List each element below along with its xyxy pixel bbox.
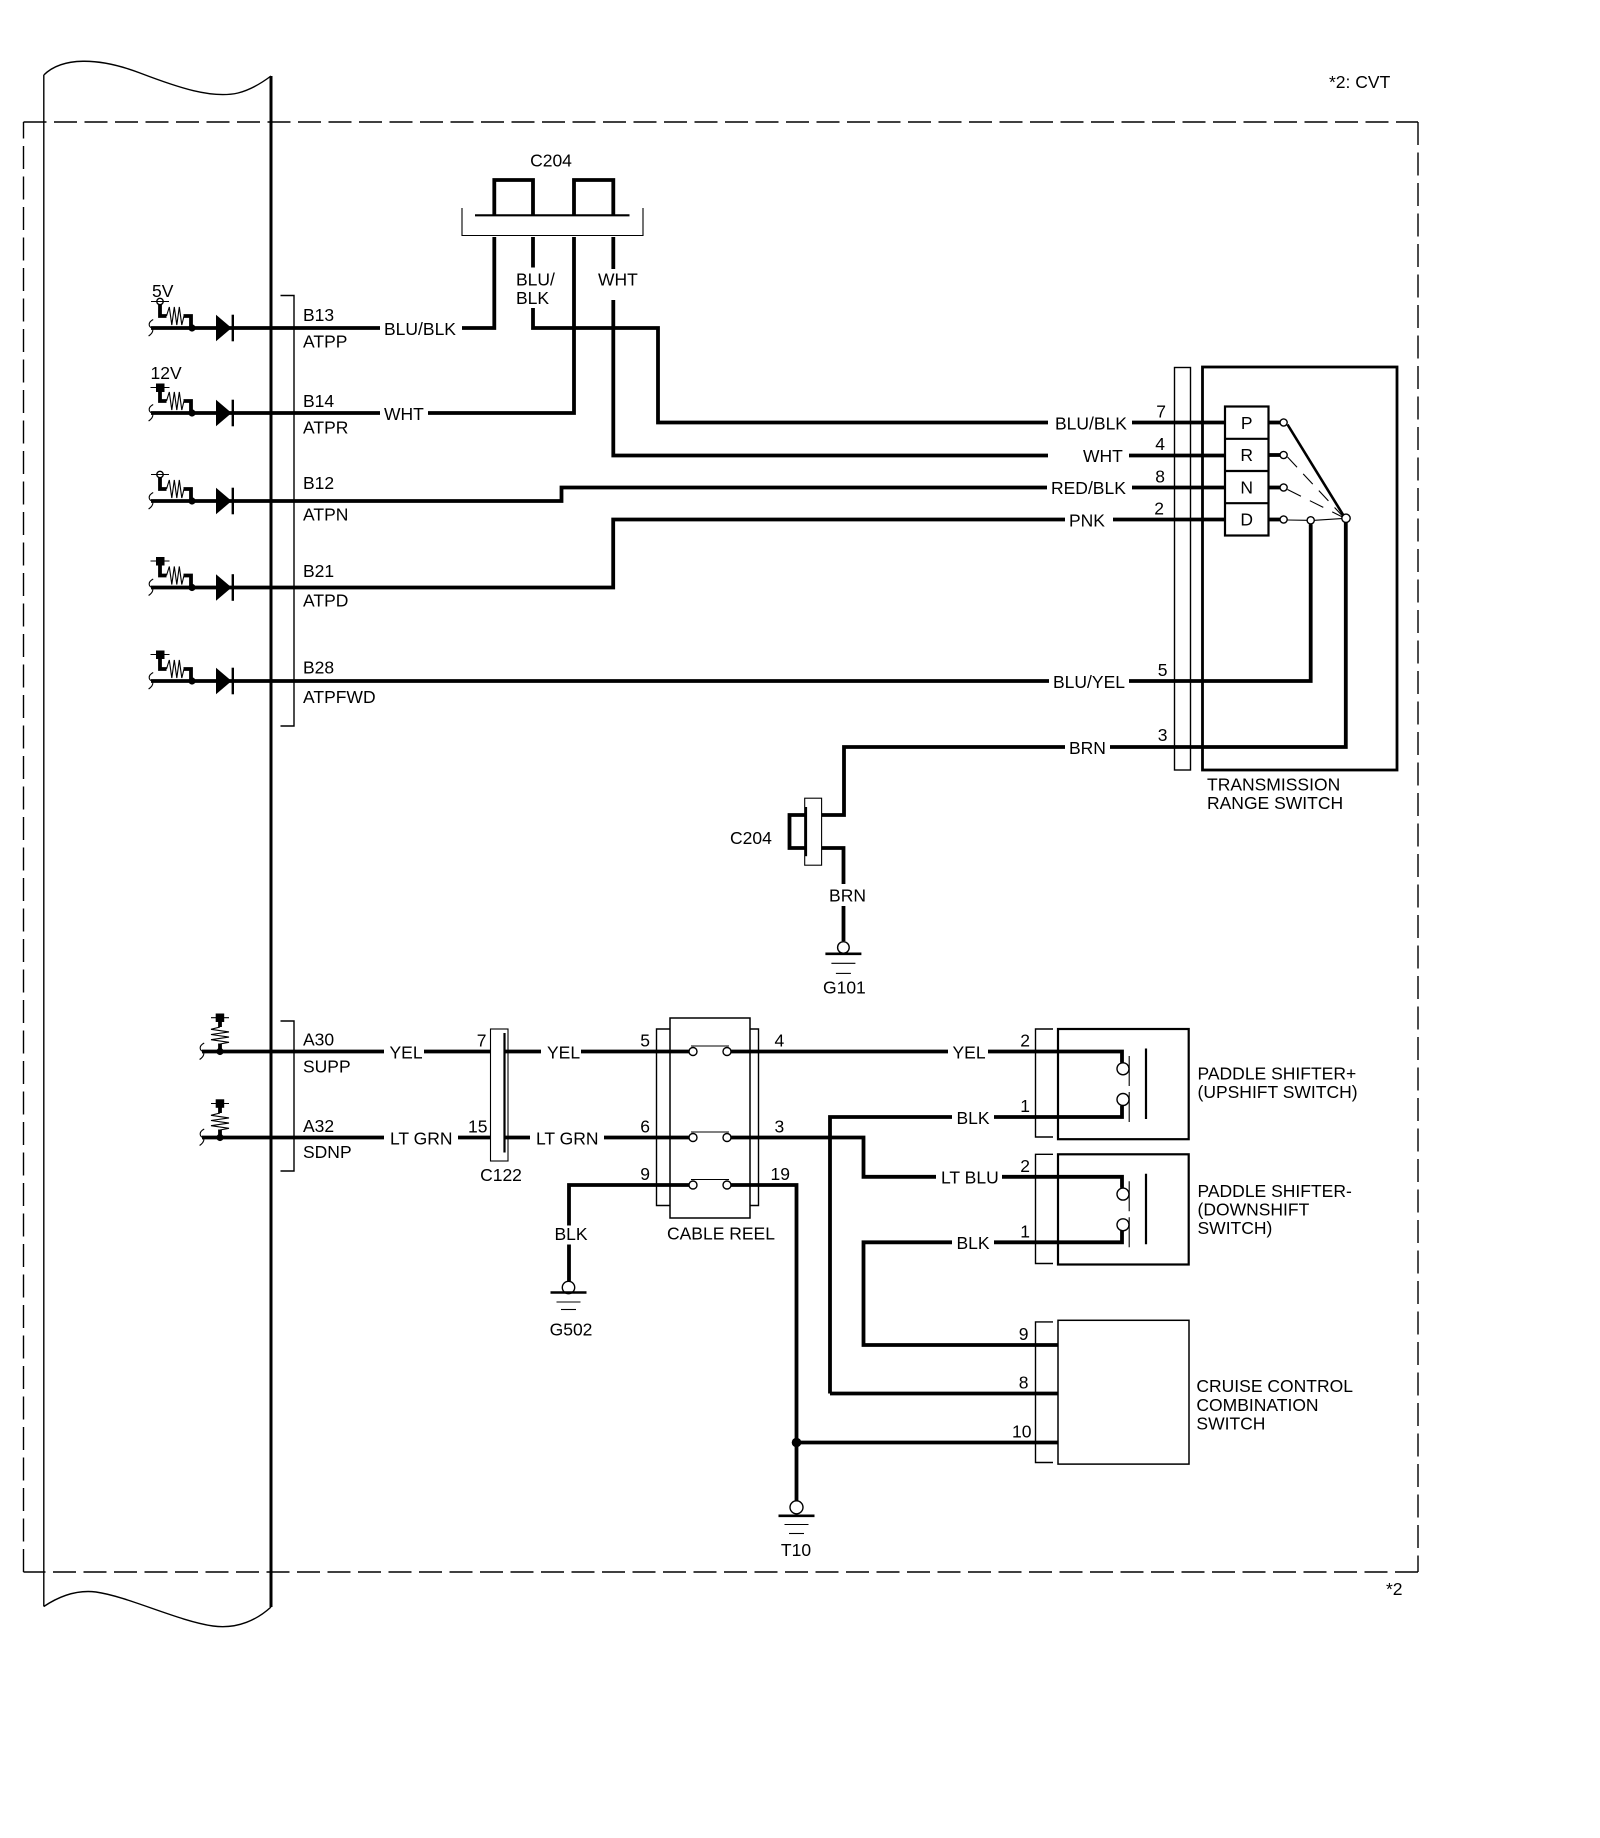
paddle+ connector bracket bbox=[1036, 1029, 1054, 1137]
svg-text:9: 9 bbox=[640, 1164, 650, 1184]
connector C122 contact bar bbox=[503, 1033, 505, 1153]
svg-text:5: 5 bbox=[640, 1031, 650, 1051]
svg-text:1: 1 bbox=[1020, 1221, 1030, 1241]
wire B14 to C204 pin 3 riser bbox=[428, 237, 574, 413]
paddle- actuator dashed line bbox=[1128, 1181, 1130, 1249]
wire break hook B14 bbox=[149, 405, 154, 422]
wire YEL to C122 bbox=[424, 1050, 491, 1054]
paddle+ upper contact bbox=[1117, 1063, 1129, 1075]
svg-text:PADDLE SHIFTER-: PADDLE SHIFTER- bbox=[1198, 1181, 1352, 1201]
wire cable reel pin 3 (LT BLU net) bbox=[731, 1138, 936, 1177]
wire break hook B21 bbox=[149, 579, 154, 596]
svg-text:TRANSMISSION: TRANSMISSION bbox=[1207, 775, 1340, 795]
paddle- button bar bbox=[1145, 1174, 1147, 1245]
cable reel contacts row 1 bbox=[689, 1046, 731, 1056]
wire cable reel pin 19 to T10/cruise pin 10 bbox=[731, 1185, 797, 1501]
paddle- box bbox=[1058, 1154, 1189, 1264]
svg-text:ATPN: ATPN bbox=[303, 504, 348, 524]
5V terminal bbox=[151, 298, 169, 304]
svg-text:12V: 12V bbox=[151, 363, 182, 383]
paddle+ actuator dashed line bbox=[1128, 1056, 1130, 1124]
wire B14 bbox=[151, 411, 380, 415]
svg-text:SWITCH: SWITCH bbox=[1196, 1414, 1265, 1434]
svg-text:BLU/: BLU/ bbox=[516, 270, 555, 290]
terminal (A30) bbox=[211, 1014, 229, 1023]
svg-text:RED/BLK: RED/BLK bbox=[1051, 478, 1126, 498]
svg-text:LT GRN: LT GRN bbox=[390, 1128, 453, 1148]
svg-text:9: 9 bbox=[1019, 1324, 1029, 1344]
wire BRN below connector bbox=[822, 848, 844, 941]
ground G502 bbox=[551, 1281, 587, 1309]
svg-text:G502: G502 bbox=[550, 1320, 593, 1340]
paddle- lower contact bbox=[1117, 1219, 1129, 1231]
terminal (B12) bbox=[151, 471, 169, 477]
svg-text:P: P bbox=[1241, 413, 1253, 433]
wire TRS pin 8 stub bbox=[1132, 486, 1225, 490]
cable reel left bracket bbox=[657, 1029, 671, 1206]
junction dot B13 bbox=[188, 324, 195, 331]
contact N bbox=[1280, 484, 1287, 491]
wire C204 pin 2 (BLU/BLK to TRS pin 7) bbox=[533, 237, 1048, 423]
contact stub N bbox=[1269, 486, 1281, 490]
wire B13 bbox=[151, 326, 380, 330]
resistor R (A32 pull-up, vertical) bbox=[211, 1107, 229, 1137]
cable reel box bbox=[670, 1018, 750, 1218]
svg-text:2: 2 bbox=[1020, 1156, 1030, 1176]
svg-text:ATPP: ATPP bbox=[303, 332, 347, 352]
svg-text:7: 7 bbox=[1156, 402, 1166, 422]
svg-text:T10: T10 bbox=[781, 1540, 811, 1560]
switch arm ghost D-common (thin) bbox=[1315, 519, 1342, 521]
svg-text:BLK: BLK bbox=[957, 1233, 990, 1253]
svg-text:(DOWNSHIFT: (DOWNSHIFT bbox=[1198, 1200, 1310, 1220]
diode D (B28) bbox=[216, 668, 234, 695]
wire YEL (C122 to cable reel pin 5) bbox=[505, 1050, 542, 1054]
wire TRS pin 3 (BRN net) bbox=[822, 523, 1346, 816]
connector C204 female shell bbox=[462, 208, 643, 236]
svg-text:B12: B12 bbox=[303, 473, 334, 493]
contact stub R bbox=[1269, 453, 1281, 457]
paddle- pin 1 wire (BLK net) bbox=[864, 1231, 1123, 1345]
svg-text:15: 15 bbox=[468, 1117, 487, 1137]
junction dot B28 bbox=[188, 677, 195, 684]
svg-text:7: 7 bbox=[477, 1031, 487, 1051]
wire break hook A30 bbox=[200, 1043, 205, 1060]
svg-text:B14: B14 bbox=[303, 391, 334, 411]
switch arm ghost to N (dashed) bbox=[1288, 490, 1343, 518]
wire TRS pin 5 into switch bbox=[1129, 525, 1311, 682]
12V terminal bbox=[151, 384, 170, 393]
svg-text:8: 8 bbox=[1155, 467, 1165, 487]
contact R bbox=[1280, 451, 1287, 458]
svg-text:BLK: BLK bbox=[516, 288, 549, 308]
resistor R (A30 pull-up, vertical) bbox=[211, 1022, 229, 1052]
svg-text:CABLE REEL: CABLE REEL bbox=[667, 1224, 775, 1244]
svg-text:YEL: YEL bbox=[953, 1042, 986, 1062]
wire cruise pin 10 bbox=[797, 1441, 1059, 1445]
dashed CVT region border bbox=[24, 122, 1419, 1572]
svg-text:2: 2 bbox=[1154, 499, 1164, 519]
svg-text:C204: C204 bbox=[530, 151, 572, 171]
svg-text:5: 5 bbox=[1158, 660, 1168, 680]
svg-text:1: 1 bbox=[1020, 1096, 1030, 1116]
svg-text:R: R bbox=[1240, 445, 1253, 465]
wire B13 to C204 pin 1 bbox=[462, 237, 494, 328]
resistor R (B12 pull-up) bbox=[160, 478, 191, 502]
svg-text:SDNP: SDNP bbox=[303, 1142, 352, 1162]
ECM connector bracket (pins B13-B28) bbox=[281, 296, 295, 727]
svg-text:C204: C204 bbox=[730, 828, 772, 848]
contact D bbox=[1280, 516, 1287, 523]
svg-text:4: 4 bbox=[1155, 434, 1165, 454]
switch arm (P position, solid) bbox=[1288, 425, 1344, 516]
paddle+ lower contact bbox=[1117, 1094, 1129, 1106]
ground G101 bbox=[825, 942, 861, 974]
resistor R (B21 pull-up) bbox=[160, 564, 191, 588]
svg-text:B28: B28 bbox=[303, 658, 334, 678]
TRS connector shell bbox=[1175, 368, 1191, 771]
connector C204 male half pins 1-2 bbox=[494, 180, 533, 216]
svg-text:YEL: YEL bbox=[390, 1042, 423, 1062]
diode D (B21) bbox=[216, 574, 234, 601]
terminal (B28) bbox=[151, 651, 170, 660]
svg-text:B13: B13 bbox=[303, 305, 334, 325]
resistor R (B28 pull-up) bbox=[160, 658, 191, 682]
svg-text:*2: *2 bbox=[1386, 1579, 1403, 1599]
svg-text:WHT: WHT bbox=[598, 270, 638, 290]
svg-text:4: 4 bbox=[775, 1031, 785, 1051]
svg-text:WHT: WHT bbox=[1083, 446, 1123, 466]
svg-text:ATPR: ATPR bbox=[303, 418, 348, 438]
svg-text:COMBINATION: COMBINATION bbox=[1196, 1395, 1318, 1415]
paddle+ button bar bbox=[1145, 1049, 1147, 1120]
connector C204 female shell (BRN) bbox=[805, 798, 822, 865]
svg-text:D: D bbox=[1240, 510, 1253, 530]
ECM connector bracket (pins A30, A32) bbox=[281, 1021, 295, 1171]
PRND contact block bbox=[1225, 407, 1269, 536]
diode D (B13) bbox=[216, 315, 234, 342]
svg-text:PADDLE SHIFTER+: PADDLE SHIFTER+ bbox=[1198, 1064, 1357, 1084]
svg-text:N: N bbox=[1240, 477, 1253, 497]
svg-text:8: 8 bbox=[1019, 1373, 1029, 1393]
wire YEL into paddle+ switch bbox=[988, 1052, 1122, 1063]
svg-text:CRUISE CONTROL: CRUISE CONTROL bbox=[1196, 1376, 1353, 1396]
svg-text:C122: C122 bbox=[480, 1165, 522, 1185]
connector C204 male half (BRN) bbox=[790, 815, 806, 848]
svg-text:BLK: BLK bbox=[957, 1108, 990, 1128]
terminal (A32) bbox=[211, 1099, 229, 1108]
svg-text:YEL: YEL bbox=[547, 1042, 580, 1062]
wire break hook B13 bbox=[149, 320, 154, 337]
cruise box bbox=[1058, 1320, 1189, 1464]
wire YEL into cable reel bbox=[581, 1050, 689, 1054]
svg-text:BLK: BLK bbox=[554, 1224, 587, 1244]
svg-text:LT GRN: LT GRN bbox=[536, 1128, 599, 1148]
common contact bbox=[1342, 514, 1350, 522]
paddle+ pin 1 wire (BLK net) bbox=[830, 1106, 1122, 1394]
diode D (B14) bbox=[216, 400, 234, 427]
svg-text:BLU/BLK: BLU/BLK bbox=[1055, 413, 1127, 433]
wire break hook B12 bbox=[149, 493, 154, 510]
cable reel contacts row 3 bbox=[689, 1180, 731, 1190]
wire A32 (LT GRN net) bbox=[202, 1136, 384, 1140]
svg-text:RANGE SWITCH: RANGE SWITCH bbox=[1207, 793, 1343, 813]
wire B12 (RED/BLK net) bbox=[151, 488, 1047, 502]
junction dot A32 bbox=[216, 1134, 223, 1141]
svg-text:B21: B21 bbox=[303, 561, 334, 581]
resistor R (B13 pull-up) bbox=[160, 305, 191, 329]
svg-text:3: 3 bbox=[1158, 725, 1168, 745]
junction dot T10 branch bbox=[792, 1438, 802, 1448]
connector C204 contact bar (BRN) bbox=[805, 807, 807, 856]
diode D (B12) bbox=[216, 488, 234, 515]
wire TRS pin 2 stub bbox=[1113, 518, 1225, 522]
svg-text:A32: A32 bbox=[303, 1116, 334, 1136]
wire break hook B28 bbox=[149, 673, 154, 690]
wire YEL (cable reel pin 4 to paddle+ pin 2) bbox=[731, 1050, 948, 1054]
wire LT GRN into cable reel bbox=[604, 1136, 689, 1140]
wire TRS pin 7 stub bbox=[1132, 421, 1225, 425]
svg-text:BLU/YEL: BLU/YEL bbox=[1053, 672, 1125, 692]
svg-text:BRN: BRN bbox=[1069, 738, 1106, 758]
wire C204 pin 4 (WHT to TRS pin 4) bbox=[613, 237, 1048, 456]
wire cruise pin 8 (BLK from paddle+) bbox=[830, 1392, 1058, 1396]
switch arm ghost to R (dashed) bbox=[1288, 457, 1343, 516]
svg-text:SWITCH): SWITCH) bbox=[1198, 1218, 1273, 1238]
svg-text:*2: CVT: *2: CVT bbox=[1329, 72, 1391, 92]
cable reel contacts row 2 bbox=[689, 1132, 731, 1142]
svg-text:ATPFWD: ATPFWD bbox=[303, 687, 376, 707]
resistor R (B14 pull-up) bbox=[160, 391, 191, 414]
TRS box bbox=[1203, 367, 1398, 770]
wire LT GRN to C122 bbox=[458, 1136, 491, 1140]
svg-text:WHT: WHT bbox=[384, 404, 424, 424]
connector C204 contact bar bbox=[475, 214, 630, 216]
svg-text:LT BLU: LT BLU bbox=[941, 1168, 999, 1188]
svg-text:(UPSHIFT SWITCH): (UPSHIFT SWITCH) bbox=[1198, 1082, 1358, 1102]
junction dot B14 bbox=[188, 409, 195, 416]
ECM/PCM box (left, with break waves) bbox=[44, 61, 271, 1626]
paddle- connector bracket bbox=[1036, 1154, 1054, 1263]
contact stub P bbox=[1269, 421, 1281, 425]
cruise connector bracket bbox=[1036, 1322, 1054, 1463]
wire BLK (cable reel pin 9 to G502) bbox=[569, 1185, 689, 1281]
svg-text:3: 3 bbox=[775, 1117, 785, 1137]
connector C122 shell bbox=[491, 1029, 509, 1161]
switch arm ghost to D (thin) bbox=[1287, 519, 1307, 521]
svg-text:10: 10 bbox=[1012, 1422, 1032, 1442]
contact stub D bbox=[1269, 518, 1281, 522]
wire LT BLU into paddle- switch bbox=[1002, 1177, 1122, 1188]
cable reel right bracket bbox=[750, 1029, 759, 1206]
wire LT GRN (C122 to cable reel pin 6) bbox=[505, 1136, 531, 1140]
svg-text:BRN: BRN bbox=[829, 886, 866, 906]
wire break hook A32 bbox=[200, 1129, 205, 1146]
paddle+ box bbox=[1058, 1029, 1189, 1139]
svg-text:2: 2 bbox=[1020, 1031, 1030, 1051]
svg-text:ATPD: ATPD bbox=[303, 590, 348, 610]
wire TRS pin 4 stub bbox=[1129, 454, 1225, 458]
junction dot A30 bbox=[216, 1048, 223, 1055]
svg-text:6: 6 bbox=[640, 1117, 650, 1137]
svg-text:5V: 5V bbox=[152, 281, 174, 301]
contact P bbox=[1280, 419, 1287, 426]
wire A30 (YEL net) bbox=[202, 1050, 384, 1054]
svg-text:A30: A30 bbox=[303, 1030, 334, 1050]
connector C204 male half pins 3-4 bbox=[574, 180, 613, 216]
svg-text:G101: G101 bbox=[823, 978, 866, 998]
wire B28 (BLU/YEL net) bbox=[151, 679, 1049, 683]
svg-text:SUPP: SUPP bbox=[303, 1056, 351, 1076]
paddle- upper contact bbox=[1117, 1188, 1129, 1200]
junction dot B21 bbox=[188, 584, 195, 591]
movable contact (D row) bbox=[1307, 517, 1314, 524]
svg-text:BLU/BLK: BLU/BLK bbox=[384, 319, 456, 339]
terminal (B21) bbox=[151, 557, 170, 566]
junction dot B12 bbox=[188, 497, 195, 504]
wire B21 (PNK net) bbox=[151, 520, 1065, 588]
svg-text:PNK: PNK bbox=[1069, 510, 1105, 530]
svg-text:19: 19 bbox=[771, 1164, 790, 1184]
